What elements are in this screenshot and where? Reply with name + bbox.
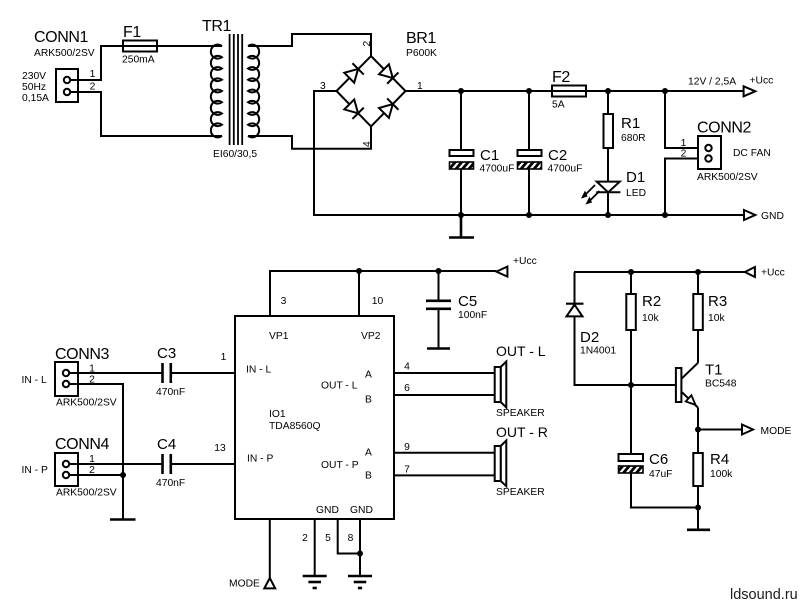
node junction CONN3/CONN4 signal ground bbox=[120, 472, 126, 478]
capacitor C2 positive plate bbox=[518, 150, 542, 156]
wire IC pin5 jog to pin8 bbox=[338, 519, 360, 554]
wire IC pin2 to ground bbox=[314, 519, 316, 576]
bridge diode (2 to 1 arm) bbox=[378, 64, 398, 84]
svg-text:B: B bbox=[365, 471, 372, 482]
transformer TR1 secondary winding bbox=[248, 45, 259, 138]
svg-text:OUT - P: OUT - P bbox=[321, 460, 359, 471]
svg-text:2: 2 bbox=[90, 82, 96, 93]
svg-text:2: 2 bbox=[302, 533, 308, 544]
svg-text:VP1: VP1 bbox=[269, 331, 289, 342]
svg-text:TDA8560Q: TDA8560Q bbox=[269, 421, 321, 432]
connector CONN4 bbox=[55, 453, 78, 486]
svg-text:4700uF: 4700uF bbox=[548, 164, 583, 175]
wire CONN2 pin1 branch bbox=[665, 91, 705, 148]
wire R2 bottom lead bbox=[630, 330, 632, 385]
wire C4 to IC pin13 bbox=[171, 463, 235, 465]
wire VP1 pin3 to +Ucc rail bbox=[270, 271, 496, 316]
led D1 emission arrow 1 bbox=[583, 185, 596, 198]
connector CONN2 bbox=[698, 136, 721, 169]
capacitor C1 positive plate bbox=[450, 150, 474, 156]
fuse F2 bbox=[552, 86, 586, 97]
svg-text:A: A bbox=[365, 370, 372, 381]
capacitor C6 negative plate (hatched) bbox=[619, 466, 644, 473]
svg-text:CONN2: CONN2 bbox=[697, 120, 752, 137]
ground bar below R4 bbox=[687, 528, 710, 531]
svg-text:VP2: VP2 bbox=[361, 331, 381, 342]
wire MODE output bbox=[698, 429, 742, 431]
svg-text:ARK500/2SV: ARK500/2SV bbox=[34, 48, 95, 59]
svg-text:8: 8 bbox=[348, 533, 354, 544]
svg-text:IN - L: IN - L bbox=[246, 365, 271, 376]
capacitor C3 plates bbox=[161, 363, 164, 383]
wire C3 to IC pin1 bbox=[171, 372, 235, 374]
svg-text:0,15A: 0,15A bbox=[22, 93, 49, 104]
svg-text:R4: R4 bbox=[710, 451, 729, 468]
resistor R3 bbox=[693, 294, 703, 330]
wire CONN4 pin2 to ground bbox=[70, 475, 124, 519]
resistor R1 bbox=[604, 114, 614, 148]
capacitor C4 plates bbox=[161, 454, 164, 474]
node junction D1 cathode bbox=[605, 212, 611, 218]
svg-text:F2: F2 bbox=[552, 69, 570, 86]
svg-text:+Ucc: +Ucc bbox=[513, 256, 537, 267]
speaker OUT-L symbol bbox=[501, 362, 507, 408]
capacitor C2 negative plate (hatched) bbox=[518, 162, 542, 169]
svg-text:T1: T1 bbox=[705, 362, 723, 379]
wire D2 anode to base wire bbox=[575, 316, 677, 385]
speaker OUT-R symbol bbox=[501, 441, 507, 487]
transformer TR1 core bbox=[229, 34, 231, 145]
led D1 cathode bar bbox=[596, 191, 620, 193]
wire +12V rail from BR1 pin1 to +Ucc arrow bbox=[406, 90, 745, 92]
svg-text:5: 5 bbox=[325, 533, 331, 544]
fuse F1 bbox=[123, 41, 157, 52]
svg-text:6: 6 bbox=[404, 383, 410, 394]
bridge rectifier BR1 diamond bbox=[337, 56, 406, 127]
node junction C2 bottom bbox=[526, 212, 532, 218]
svg-text:GND: GND bbox=[761, 211, 784, 222]
wire R1 top lead bbox=[607, 91, 609, 114]
transistor T1 base bar bbox=[676, 368, 682, 402]
svg-text:CONN3: CONN3 bbox=[55, 346, 110, 363]
svg-text:OUT - L: OUT - L bbox=[321, 381, 358, 392]
capacitor C1 negative plate (hatched) bbox=[450, 162, 474, 169]
wire R4 bottom lead bbox=[697, 486, 699, 530]
transistor T1 collector lead bbox=[681, 363, 698, 379]
power flag +Ucc (IC rail) bbox=[496, 267, 507, 277]
wire D2 cathode lead bbox=[574, 272, 576, 304]
node junction emitter/MODE/R4 bbox=[695, 427, 701, 433]
transformer TR1 primary winding bbox=[211, 45, 222, 138]
ground IC pin8 bbox=[348, 575, 372, 578]
svg-text:SPEAKER: SPEAKER bbox=[496, 408, 545, 419]
wire R1 to D1 bbox=[607, 148, 609, 182]
wire R3 to T1 collector bbox=[697, 330, 699, 363]
node junction C1 bottom bbox=[458, 212, 464, 218]
wire +Ucc rail (right section) bbox=[574, 271, 745, 273]
wire CONN4 pin1 to C4 bbox=[70, 463, 163, 465]
node junction R4/C6 ground bbox=[695, 505, 701, 511]
svg-text:C4: C4 bbox=[157, 436, 176, 453]
svg-text:LED: LED bbox=[626, 188, 646, 199]
wire C5 bottom lead bbox=[438, 309, 440, 349]
diode D2 triangle bbox=[567, 305, 583, 317]
node junction R1 top bbox=[605, 88, 611, 94]
wire C1 bottom lead bbox=[460, 169, 462, 215]
svg-text:250mA: 250mA bbox=[122, 55, 155, 66]
connector CONN1 pin hole 2 bbox=[64, 89, 70, 95]
wire CONN1 pin1 to F1 bbox=[71, 46, 124, 80]
svg-text:C1: C1 bbox=[480, 147, 499, 164]
wire GND rail from BR1 pin3 bbox=[314, 91, 744, 215]
node junction CONN2 pin1 branch bbox=[662, 88, 668, 94]
svg-text:BC548: BC548 bbox=[705, 379, 737, 390]
svg-text:10k: 10k bbox=[642, 313, 659, 324]
svg-text:C5: C5 bbox=[458, 293, 477, 310]
node junction pin5/pin8 bbox=[357, 551, 363, 557]
connector CONN3 pin hole 1 bbox=[63, 370, 69, 376]
node junction base/C6 bbox=[628, 382, 634, 388]
wire VP2 pin10 bbox=[358, 271, 360, 316]
wire T1 emitter down bbox=[697, 408, 699, 430]
svg-text:IN - L: IN - L bbox=[22, 375, 47, 386]
wire C2 bottom lead bbox=[528, 169, 530, 215]
bridge diode (4 to 1 arm) bbox=[378, 98, 398, 118]
node junction C1 top bbox=[458, 88, 464, 94]
svg-text:IN - P: IN - P bbox=[22, 465, 48, 476]
node junction CONN2 pin2 branch bbox=[662, 212, 668, 218]
wire TR1 secondary bottom to BR1 pin4 bbox=[248, 127, 371, 149]
mode flag triangle (IC) bbox=[264, 578, 275, 588]
power flag GND arrow bbox=[744, 210, 755, 220]
op-amp IC IO1 TDA8560Q body bbox=[235, 316, 394, 519]
svg-text:5A: 5A bbox=[552, 100, 565, 111]
ground bar below C5 bbox=[427, 347, 450, 350]
ground below C1 bbox=[449, 215, 474, 238]
wire C5 top lead bbox=[438, 271, 440, 300]
svg-text:12V / 2,5A: 12V / 2,5A bbox=[688, 77, 736, 88]
svg-text:CONN4: CONN4 bbox=[55, 436, 110, 453]
connector CONN3 pin hole 2 bbox=[63, 381, 69, 387]
wire C1 top lead bbox=[460, 91, 462, 150]
svg-text:+Ucc: +Ucc bbox=[761, 268, 785, 279]
svg-text:1N4001: 1N4001 bbox=[580, 346, 616, 357]
svg-text:OUT - L: OUT - L bbox=[496, 343, 546, 359]
wire CONN1 pin2 to TR1 primary bottom bbox=[71, 92, 223, 136]
bridge diode (3 to 4 arm) bbox=[344, 99, 364, 119]
ground IC pin2 bbox=[303, 575, 327, 578]
svg-text:ARK500/2SV: ARK500/2SV bbox=[56, 398, 117, 409]
node junction VP2 rail bbox=[356, 268, 362, 274]
svg-text:R2: R2 bbox=[642, 293, 661, 310]
svg-text:MODE: MODE bbox=[761, 426, 792, 437]
wire R2 top lead bbox=[630, 272, 632, 294]
wire C6 top lead bbox=[630, 385, 632, 454]
svg-text:R1: R1 bbox=[621, 115, 640, 132]
svg-text:100nF: 100nF bbox=[458, 310, 487, 321]
svg-text:ARK500/2SV: ARK500/2SV bbox=[697, 172, 758, 183]
capacitor C5 plates bbox=[426, 299, 451, 302]
svg-text:B: B bbox=[365, 395, 372, 406]
svg-text:470nF: 470nF bbox=[156, 478, 185, 489]
wire CONN3 pin1 to C3 bbox=[70, 372, 163, 374]
node junction R3 top bbox=[695, 269, 701, 275]
svg-text:P600K: P600K bbox=[406, 48, 437, 59]
wire C2 top lead bbox=[528, 91, 530, 150]
svg-text:D1: D1 bbox=[626, 169, 645, 186]
led D1 triangle bbox=[597, 182, 620, 193]
bridge diode (3 to 2 arm) bbox=[344, 63, 364, 83]
svg-text:D2: D2 bbox=[580, 329, 599, 346]
svg-text:4: 4 bbox=[404, 362, 410, 373]
svg-text:BR1: BR1 bbox=[406, 30, 436, 47]
wire D1 to GND rail bbox=[607, 192, 609, 215]
svg-text:F1: F1 bbox=[123, 24, 141, 41]
svg-text:50Hz: 50Hz bbox=[22, 82, 46, 93]
svg-text:100k: 100k bbox=[710, 469, 733, 480]
svg-text:IO1: IO1 bbox=[269, 409, 286, 420]
diode D2 cathode bar bbox=[566, 303, 584, 305]
wire through F1 to TR1 primary top bbox=[123, 45, 222, 47]
node junction C5 rail bbox=[436, 268, 442, 274]
wire IC pin9 to speaker R bbox=[394, 452, 495, 454]
svg-text:230V: 230V bbox=[22, 71, 46, 82]
node junction R2 top bbox=[628, 269, 634, 275]
svg-text:7: 7 bbox=[404, 465, 410, 476]
node junction C2 top bbox=[526, 88, 532, 94]
svg-text:CONN1: CONN1 bbox=[34, 29, 89, 46]
svg-text:1: 1 bbox=[90, 69, 96, 80]
wire CONN3 pin2 down to CONN4 pin2 node bbox=[70, 384, 124, 475]
mode flag arrow (right) bbox=[742, 425, 753, 435]
wire IC pin8 to ground bbox=[359, 519, 361, 576]
svg-text:470nF: 470nF bbox=[156, 387, 185, 398]
svg-text:13: 13 bbox=[214, 443, 226, 454]
wire CONN2 pin2 branch bbox=[665, 159, 705, 216]
svg-text:1: 1 bbox=[681, 138, 687, 149]
svg-text:2: 2 bbox=[362, 41, 373, 47]
svg-text:DC FAN: DC FAN bbox=[733, 148, 771, 159]
svg-text:C3: C3 bbox=[157, 345, 176, 362]
svg-text:4700uF: 4700uF bbox=[480, 164, 515, 175]
svg-text:GND: GND bbox=[350, 505, 373, 516]
svg-text:GND: GND bbox=[316, 505, 339, 516]
wire IC pin7 to speaker R bbox=[394, 474, 495, 476]
connector CONN2 pin hole 2 bbox=[705, 155, 711, 161]
wire IC pin6 to speaker L bbox=[394, 394, 495, 396]
svg-text:2: 2 bbox=[681, 149, 687, 160]
svg-text:9: 9 bbox=[404, 442, 410, 453]
connector CONN4 pin hole 2 bbox=[63, 472, 69, 478]
resistor R4 bbox=[693, 453, 703, 486]
svg-text:C6: C6 bbox=[649, 451, 668, 468]
svg-text:A: A bbox=[365, 448, 372, 459]
wire R4 top lead bbox=[697, 430, 699, 454]
svg-text:+Ucc: +Ucc bbox=[750, 76, 774, 87]
connector CONN2 pin hole 1 bbox=[705, 145, 711, 151]
wire IC pin4 to speaker L bbox=[394, 372, 495, 374]
svg-text:IN - P: IN - P bbox=[247, 454, 273, 465]
svg-text:10: 10 bbox=[372, 296, 384, 307]
wire R3 top lead bbox=[697, 272, 699, 294]
capacitor C6 positive plate bbox=[619, 454, 644, 461]
transistor T1 emitter arrow bbox=[686, 395, 696, 405]
led D1 emission arrow 2 bbox=[587, 191, 600, 204]
svg-text:EI60/30,5: EI60/30,5 bbox=[213, 149, 257, 160]
svg-text:MODE: MODE bbox=[229, 579, 260, 590]
svg-text:3: 3 bbox=[281, 296, 287, 307]
svg-text:47uF: 47uF bbox=[649, 469, 672, 480]
svg-text:4: 4 bbox=[362, 141, 373, 147]
svg-text:TR1: TR1 bbox=[202, 18, 232, 35]
connector CONN1 pin hole 1 bbox=[64, 77, 70, 83]
connector CONN3 bbox=[55, 362, 78, 396]
connector CONN4 pin hole 1 bbox=[63, 461, 69, 467]
connector CONN1 bbox=[56, 69, 78, 102]
wire C6 bottom lead bbox=[631, 473, 698, 508]
svg-text:680R: 680R bbox=[621, 133, 646, 144]
svg-text:1: 1 bbox=[221, 352, 227, 363]
wire TR1 secondary top to BR1 pin2 bbox=[248, 34, 371, 56]
svg-text:ldsound.ru: ldsound.ru bbox=[730, 587, 798, 603]
power flag +Ucc (top rail) bbox=[744, 86, 756, 96]
ground bar below CONN4 bbox=[110, 518, 136, 521]
svg-text:10k: 10k bbox=[708, 313, 725, 324]
svg-text:C2: C2 bbox=[548, 147, 567, 164]
wire IC MODE pin bbox=[269, 519, 271, 578]
svg-text:OUT - R: OUT - R bbox=[496, 424, 548, 440]
svg-text:SPEAKER: SPEAKER bbox=[496, 487, 545, 498]
svg-text:ARK500/2SV: ARK500/2SV bbox=[56, 488, 117, 499]
power flag +Ucc (right) bbox=[745, 267, 755, 277]
svg-text:R3: R3 bbox=[708, 293, 727, 310]
transistor T1 emitter lead bbox=[681, 392, 698, 408]
resistor R2 bbox=[626, 294, 636, 330]
